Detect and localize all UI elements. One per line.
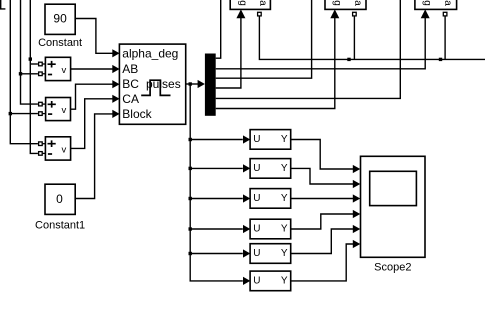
svg-text:g: g (332, 0, 343, 6)
svg-text:v: v (62, 144, 67, 155)
svg-text:Scope2: Scope2 (374, 261, 411, 273)
wire: block2 a-terminal down to bus (353, 16, 355, 59)
svg-text:Y: Y (281, 193, 288, 204)
svg-text:g: g (237, 0, 248, 6)
svg-text:pulses: pulses (146, 77, 181, 91)
bridge block 2 (partially off-screen) (325, 0, 366, 9)
svg-text:U: U (253, 223, 260, 234)
terminal square v2 + (39, 102, 43, 106)
arrowhead U2 input (243, 164, 250, 172)
wire: branch to selector U1 (190, 139, 243, 141)
junction dot U2 branch (189, 167, 192, 170)
arrowhead demux input (198, 80, 205, 88)
junction dot U5 branch (189, 252, 192, 255)
svg-text:U: U (253, 193, 260, 204)
terminal square bridge3 a (443, 12, 447, 16)
arrowhead Scope in3 (353, 194, 361, 202)
wire: block3 a-terminal down to bus (444, 16, 446, 59)
wire: branch to selector U3 (190, 198, 243, 200)
junction dot v1 minus branch (19, 72, 22, 75)
arrowhead BC (112, 80, 119, 88)
demux bar (205, 54, 216, 116)
junction dot v2 minus branch (9, 112, 12, 115)
arrowhead alpha_deg (112, 49, 119, 57)
arrowhead Scope in4 (353, 210, 361, 218)
wire: demux out3 up to top edge (216, 0, 312, 78)
bridge block 1 (partially off-screen) (230, 0, 270, 9)
wire: branch to selector U4 (190, 228, 243, 230)
block Constant1 (0) (45, 184, 75, 214)
svg-text:Y: Y (281, 134, 288, 145)
arrowhead U4 input (243, 225, 250, 233)
wire: demux out2 to gate of bridge block 3 (216, 18, 426, 69)
wire: branch to selector U5 (190, 253, 243, 255)
gate arrowhead bridge block1 (236, 9, 245, 18)
arrowhead Scope in1 (353, 165, 361, 173)
wire: U5 output to Scope in5 (291, 229, 354, 254)
svg-text:U: U (253, 134, 260, 145)
gate arrowhead bridge block3 (421, 9, 430, 18)
wire: demux out4 to gate of bridge block 1 (216, 18, 241, 88)
wire: U1 output to Scope in1 (291, 140, 354, 170)
svg-text:Y: Y (281, 163, 288, 174)
wire: pulses branch down to selectors (190, 84, 243, 281)
svg-text:U: U (253, 275, 260, 286)
wire: v2 output to BC (71, 84, 113, 109)
terminal square v1 - (39, 72, 43, 76)
terminal square bridge1 a (258, 12, 262, 16)
terminal square v1 + (39, 12, 447, 155)
svg-text:U: U (253, 163, 260, 174)
wire: demux out6 to gate of bridge block 2 (216, 18, 335, 109)
junction dot U3 branch (189, 197, 192, 200)
svg-text:U: U (253, 248, 260, 259)
svg-text:AB: AB (122, 62, 138, 76)
svg-text:90: 90 (53, 12, 67, 26)
svg-text:0: 0 (56, 192, 63, 206)
junction dot U4 branch (189, 227, 192, 230)
svg-text:Block: Block (122, 107, 152, 121)
svg-text:Y: Y (281, 223, 288, 234)
stub v2 + (43, 103, 46, 105)
selector block U1 (250, 130, 291, 150)
arrowhead Scope in2 (353, 180, 361, 188)
wire: bus from block1 a-terminal to right edge (259, 16, 485, 59)
svg-text:Constant1: Constant1 (35, 220, 85, 232)
arrowhead Scope in5 (353, 225, 361, 233)
arrowhead Block (112, 110, 119, 118)
terminal square v2 - (39, 112, 43, 116)
svg-text:a: a (352, 0, 363, 6)
wire: pulses output to Demux (186, 83, 199, 85)
gate arrowhead bridge block2 (330, 9, 339, 18)
wire: demux out5 up to top edge (216, 0, 401, 98)
block Scope2 (361, 156, 426, 257)
wire: Constant to alpha_deg (75, 19, 112, 54)
svg-text:v: v (62, 65, 67, 76)
stub v3 + (43, 143, 46, 145)
junction dot on bus at block3 (439, 58, 442, 61)
wire: U2 output to Scope in2 (291, 168, 354, 184)
pulse waveform icon (141, 80, 170, 95)
wire: branch to selector U2 (190, 167, 243, 169)
arrowhead U1 input (243, 135, 250, 143)
junction dot pulses output (189, 82, 192, 85)
wire: U3 output to Scope in3 (291, 198, 354, 200)
svg-text:g: g (422, 0, 433, 6)
arrowhead AB (112, 65, 119, 73)
block Synchronized 6-Pulse Generator (119, 44, 185, 124)
junction dot U1 branch (189, 138, 192, 141)
svg-text:CA: CA (122, 92, 139, 106)
selector block U6 (250, 271, 291, 291)
wire: v3 output to CA (71, 99, 113, 149)
svg-text:alpha_deg: alpha_deg (122, 46, 178, 60)
wire: demux out1 up to top edge (216, 0, 221, 58)
arrowhead U6 input (243, 277, 250, 285)
wire: source line C (x=10.3) to v3 + terminal (10, 0, 38, 144)
selector block U3 (250, 189, 291, 209)
junction dot on bus at block2 (347, 58, 350, 61)
arrowhead Scope in6 (353, 240, 361, 248)
scope screen (370, 171, 417, 205)
wire: branch to v1 + terminal (30, 63, 38, 65)
wire: source line A (x=30.3) to v3 - terminal (30, 0, 38, 153)
wire: branch to v2 - terminal (10, 113, 38, 115)
terminal square v3 - (39, 152, 43, 156)
wire: v1 output to AB (71, 68, 113, 70)
svg-text:a: a (442, 0, 453, 6)
block Constant (90) (45, 4, 75, 34)
wire: U4 output to Scope in4 (291, 214, 354, 229)
svg-text:a: a (257, 0, 268, 6)
svg-text:BC: BC (122, 77, 139, 91)
junction dot on line A (29, 57, 32, 60)
stub v1 - (43, 73, 46, 75)
block v3 voltage measurement (45, 137, 70, 160)
svg-text:Y: Y (281, 275, 288, 286)
block v2 voltage measurement (46, 98, 71, 121)
terminal square v3 + (39, 142, 43, 146)
wire: U6 output to Scope in6 (291, 244, 354, 281)
selector block U2 (250, 159, 291, 179)
wire: branch to v1 - terminal (21, 73, 38, 75)
terminal square bridge2 a (353, 12, 357, 16)
arrowhead U3 input (243, 194, 250, 202)
svg-text:v: v (62, 105, 67, 116)
wire: Constant1 to Block input (75, 114, 112, 199)
wire: source line B (x=20.5) to v2 + terminal (21, 0, 38, 104)
arrowhead U5 input (243, 249, 250, 257)
svg-text:Constant: Constant (38, 37, 82, 49)
block v1 voltage measurement (45, 57, 70, 80)
bridge block 3 (partially off-screen) (415, 0, 457, 9)
arrowhead CA (112, 95, 119, 103)
stub v2 - (43, 113, 46, 115)
selector block U5 (250, 244, 291, 264)
selector block U4 (250, 219, 291, 239)
wire: top-left stub (1, 0, 6, 9)
svg-text:Y: Y (281, 248, 288, 259)
stub v3 - (43, 152, 46, 154)
stub v1 + (43, 64, 46, 153)
